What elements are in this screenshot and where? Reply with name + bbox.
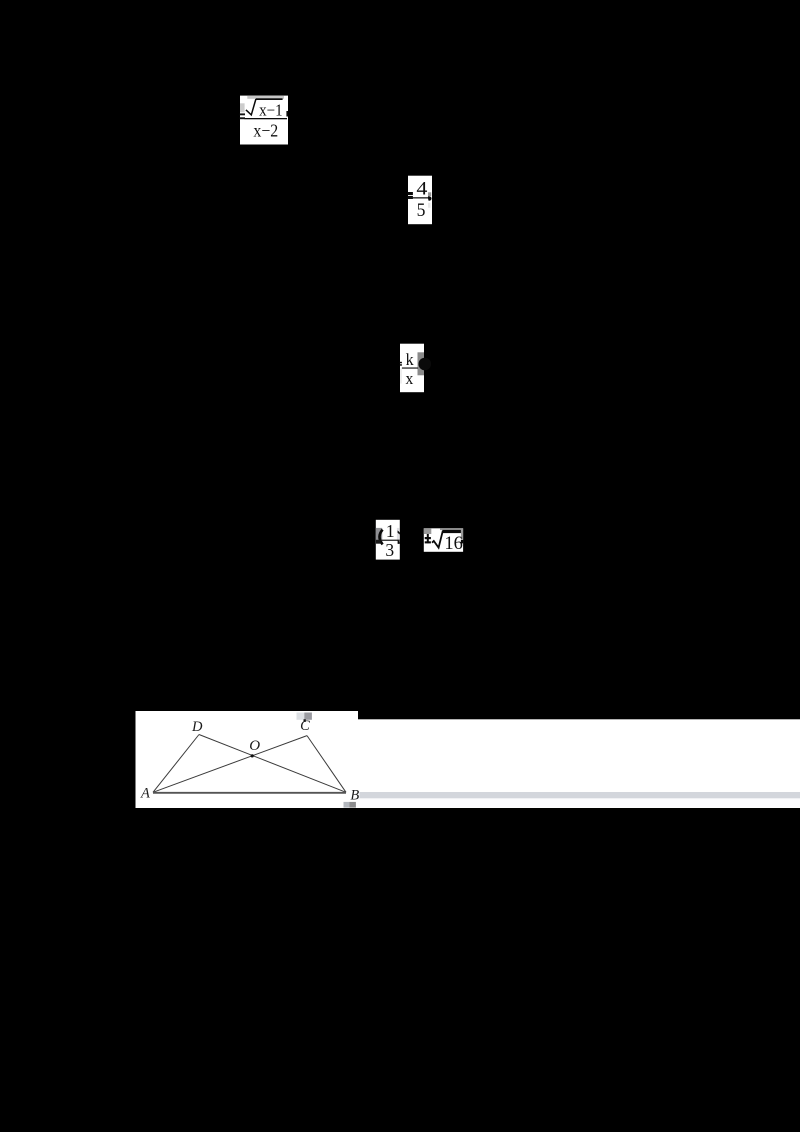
svg-text:A: A [140, 785, 150, 801]
svg-text:16: 16 [444, 534, 463, 554]
gray squares above C [297, 713, 305, 720]
gray squares below B [344, 802, 350, 808]
line A to C [153, 736, 307, 793]
svg-text:B: B [350, 788, 359, 804]
svg-text:1: 1 [386, 521, 395, 541]
black tick above C [304, 719, 306, 722]
formula image 3: = k/x ( [400, 344, 432, 393]
svg-text:C: C [300, 718, 310, 734]
base AB [153, 792, 346, 794]
svg-text:x−1: x−1 [259, 101, 283, 120]
formula image 2: = 4/5 , [408, 176, 432, 225]
formula image 5: +- sqrt(16) , [424, 528, 464, 554]
white band with geometry figure [136, 711, 800, 808]
svg-text:D: D [191, 719, 203, 735]
svg-text:k: k [406, 350, 415, 369]
svg-text:x−2: x−2 [253, 121, 278, 141]
svg-text:x: x [406, 369, 415, 388]
point O dot [251, 754, 254, 757]
svg-text:O: O [249, 738, 260, 754]
line D to B [199, 735, 346, 793]
svg-text:4: 4 [416, 178, 428, 199]
side CB [307, 736, 346, 793]
formula image 1: sqrt(x-1)/(x-2) [240, 96, 288, 145]
formula image 4: (1/3) [376, 520, 400, 560]
svg-text:5: 5 [417, 200, 426, 221]
svg-text:3: 3 [385, 540, 394, 560]
triangle figure: side AD [153, 735, 199, 793]
